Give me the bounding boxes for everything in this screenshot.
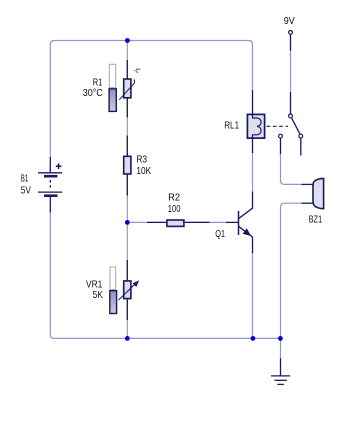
svg-text:5V: 5V bbox=[21, 185, 31, 196]
svg-text:9V: 9V bbox=[284, 16, 295, 27]
svg-text:RL1: RL1 bbox=[224, 121, 239, 132]
svg-text:R1: R1 bbox=[93, 78, 103, 89]
svg-text:R3: R3 bbox=[136, 155, 147, 166]
svg-text:10K: 10K bbox=[136, 166, 151, 177]
svg-text:VR1: VR1 bbox=[86, 279, 103, 290]
svg-text:-t°: -t° bbox=[134, 67, 141, 75]
svg-text:5K: 5K bbox=[93, 290, 104, 301]
svg-text:BZ1: BZ1 bbox=[309, 214, 323, 225]
svg-text:Q1: Q1 bbox=[215, 229, 225, 240]
svg-text:B1: B1 bbox=[21, 174, 29, 185]
svg-text:30°C: 30°C bbox=[83, 88, 103, 99]
svg-text:R2: R2 bbox=[168, 193, 180, 204]
svg-text:100: 100 bbox=[168, 204, 181, 215]
